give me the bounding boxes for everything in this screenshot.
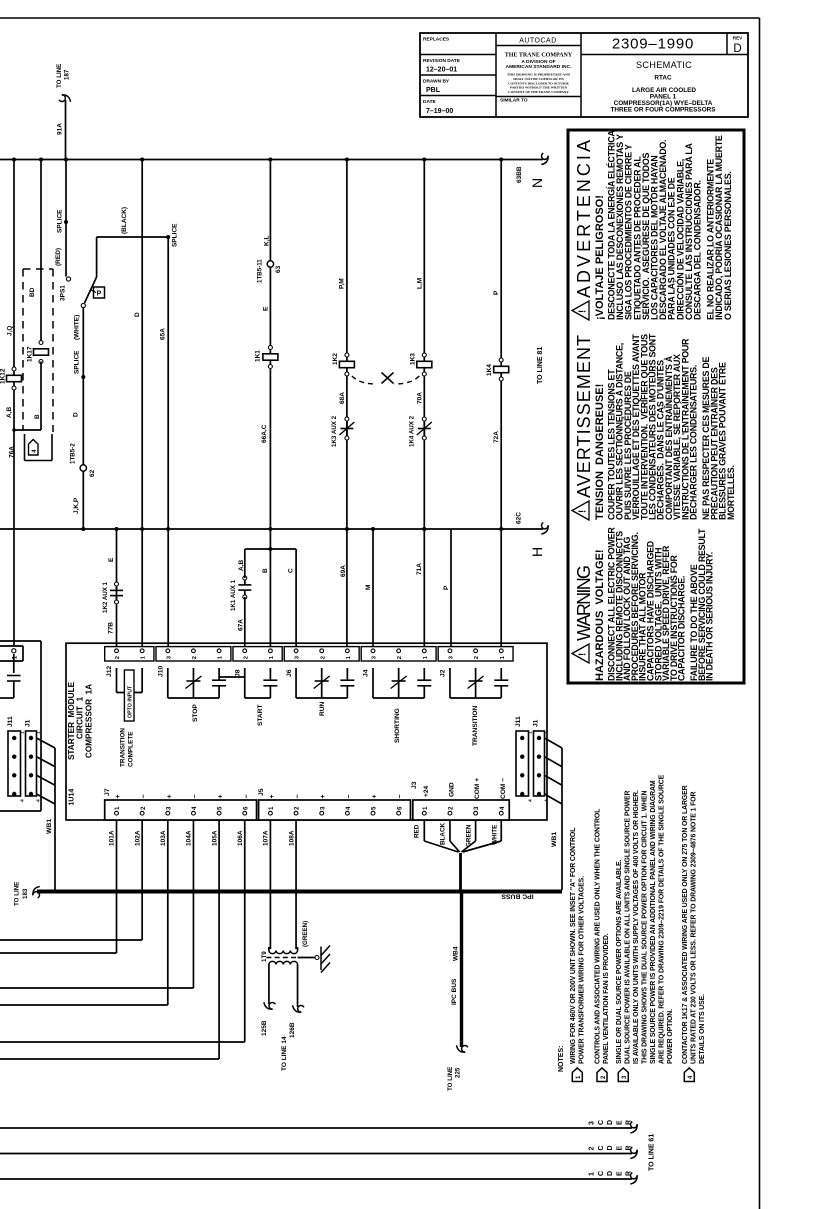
- svg-text:COMPRESSOR 1A: COMPRESSOR 1A: [85, 684, 94, 758]
- svg-text:AVERTISSEMENT: AVERTISSEMENT: [574, 335, 594, 498]
- svg-text:WIRING FOR 460V OR 200V UNIT S: WIRING FOR 460V OR 200V UNIT SHOWN. SEE …: [570, 828, 577, 1064]
- svg-text:1: 1: [20, 731, 26, 734]
- svg-text:5: 5: [217, 806, 224, 810]
- svg-text:CONTACTOR 1K17 & ASSOCIATED WI: CONTACTOR 1K17 & ASSOCIATED WIRING ARE U…: [682, 785, 689, 1064]
- svg-text:REVISION DATE: REVISION DATE: [423, 58, 461, 64]
- svg-text:B: B: [34, 414, 41, 419]
- svg-text:2: 2: [115, 656, 121, 659]
- svg-text:IPC BUS: IPC BUS: [451, 978, 458, 1005]
- svg-text:4: 4: [499, 806, 506, 810]
- svg-text:SHALL NOT BE COPIED OR ITS: SHALL NOT BE COPIED OR ITS: [513, 77, 564, 81]
- svg-text:J4: J4: [363, 669, 370, 677]
- svg-text:183: 183: [22, 888, 29, 899]
- svg-text:1K1 AUX 1: 1K1 AUX 1: [230, 579, 237, 611]
- svg-text:1K2 AUX 1: 1K2 AUX 1: [102, 581, 109, 613]
- svg-text:J11: J11: [7, 716, 14, 727]
- svg-text:A,B: A,B: [6, 407, 13, 419]
- svg-text:1: 1: [576, 1075, 582, 1079]
- svg-text:1TB5-11: 1TB5-11: [257, 259, 264, 283]
- svg-text:C: C: [598, 1171, 605, 1176]
- svg-text:J10: J10: [158, 665, 165, 677]
- svg-text:HAZARDOUS VOLTAGE!: HAZARDOUS VOLTAGE!: [594, 549, 606, 681]
- svg-text:65A: 65A: [160, 328, 167, 340]
- svg-text:PBL: PBL: [426, 87, 441, 94]
- svg-text:(GREEN): (GREEN): [302, 921, 309, 947]
- svg-text:TO LINE 81: TO LINE 81: [537, 347, 544, 384]
- svg-text:J2: J2: [440, 669, 447, 677]
- svg-text:−: −: [243, 794, 250, 798]
- svg-text:J,Q: J,Q: [7, 326, 14, 336]
- svg-text:CAPACITOR DISCHARGE.: CAPACITOR DISCHARGE.: [677, 576, 687, 681]
- svg-text:J,K,P: J,K,P: [73, 497, 80, 514]
- svg-text:WB1: WB1: [46, 819, 53, 834]
- svg-text:RTAC: RTAC: [654, 75, 672, 82]
- svg-text:1: 1: [528, 731, 534, 734]
- svg-text:!: !: [578, 510, 589, 513]
- svg-text:66A,C: 66A,C: [261, 424, 268, 443]
- svg-text:1: 1: [268, 806, 275, 810]
- svg-text:1K4 AUX 2: 1K4 AUX 2: [409, 415, 416, 447]
- svg-text:COM −: COM −: [500, 778, 507, 799]
- svg-text:4: 4: [688, 1075, 694, 1079]
- svg-text:E: E: [108, 557, 115, 562]
- svg-text:2: 2: [294, 806, 301, 810]
- svg-text:J8: J8: [234, 669, 241, 677]
- svg-text:RUN: RUN: [319, 701, 326, 716]
- svg-text:6: 6: [242, 806, 249, 810]
- svg-text:(WHITE): (WHITE): [74, 315, 81, 340]
- svg-text:4: 4: [345, 806, 352, 810]
- svg-text:−: −: [397, 794, 404, 798]
- svg-text:!: !: [578, 310, 589, 313]
- svg-text:R: R: [626, 1120, 633, 1125]
- svg-text:J11: J11: [515, 716, 522, 727]
- svg-text:72A: 72A: [493, 431, 500, 443]
- svg-text:DETAILS ON ITS USE.: DETAILS ON ITS USE.: [699, 994, 706, 1064]
- svg-text:M: M: [365, 585, 372, 590]
- svg-text:K,L: K,L: [264, 236, 271, 247]
- svg-text:P: P: [493, 290, 500, 295]
- svg-text:TRANSITION: TRANSITION: [472, 705, 479, 746]
- svg-text:3: 3: [165, 806, 172, 810]
- svg-text:1U14: 1U14: [69, 789, 76, 806]
- svg-text:TO LINE 61: TO LINE 61: [649, 1134, 656, 1171]
- svg-text:2: 2: [192, 656, 198, 659]
- svg-text:1K4: 1K4: [486, 364, 493, 376]
- svg-text:107A: 107A: [263, 830, 270, 846]
- svg-text:+: +: [269, 794, 276, 798]
- svg-text:POWER TRANSFORMER WIRING FOR O: POWER TRANSFORMER WIRING FOR OTHER VOLTA…: [578, 876, 585, 1064]
- svg-text:3: 3: [589, 1121, 596, 1125]
- svg-text:+24: +24: [423, 785, 430, 797]
- svg-text:P: P: [443, 585, 450, 590]
- svg-text:DESCARGA DEL CONDENSADOR.: DESCARGA DEL CONDENSADOR.: [693, 180, 703, 320]
- svg-text:RED: RED: [414, 824, 421, 838]
- svg-text:NOTES:: NOTES:: [558, 1046, 565, 1072]
- svg-text:2: 2: [320, 656, 326, 659]
- svg-text:C: C: [288, 568, 295, 573]
- svg-text:REV: REV: [733, 36, 743, 41]
- svg-text:106A: 106A: [237, 830, 244, 846]
- svg-text:2309–1990: 2309–1990: [612, 36, 694, 53]
- svg-text:4: 4: [528, 799, 534, 802]
- svg-text:−: −: [346, 794, 353, 798]
- svg-text:MORTELLES.: MORTELLES.: [726, 465, 736, 520]
- svg-text:1K17: 1K17: [27, 346, 34, 362]
- svg-text:COMPLETE: COMPLETE: [128, 731, 135, 767]
- svg-text:68A: 68A: [339, 392, 346, 404]
- svg-text:101A: 101A: [109, 830, 116, 846]
- svg-text:COM +: COM +: [474, 778, 481, 799]
- svg-text:P,M: P,M: [339, 278, 346, 289]
- svg-text:125B: 125B: [261, 1020, 268, 1036]
- svg-text:J3: J3: [411, 781, 418, 789]
- svg-text:CIRCUIT 1: CIRCUIT 1: [76, 696, 85, 739]
- svg-text:1K3: 1K3: [410, 353, 417, 365]
- svg-text:GND: GND: [448, 782, 455, 797]
- svg-text:J1: J1: [25, 719, 32, 727]
- svg-text:TO LINE 14: TO LINE 14: [281, 1036, 288, 1071]
- svg-text:2: 2: [140, 806, 147, 810]
- svg-text:2: 2: [448, 806, 455, 810]
- svg-text:126B: 126B: [289, 1022, 296, 1038]
- svg-text:P: P: [97, 291, 102, 298]
- svg-text:102A: 102A: [134, 830, 141, 846]
- svg-text:OPTO INPUT: OPTO INPUT: [127, 685, 133, 718]
- svg-text:¡VOLTAJE PELIGROSO!: ¡VOLTAJE PELIGROSO!: [594, 195, 606, 320]
- svg-text:WB4: WB4: [453, 946, 460, 961]
- svg-text:DUAL SOURCE POWER IS AVAILABLE: DUAL SOURCE POWER IS AVAILABLE ON ALL UN…: [624, 790, 631, 1064]
- svg-text:SINGLE SOURCE POWER IS PROVIDE: SINGLE SOURCE POWER IS PROVIDED AN ADDIT…: [650, 780, 657, 1064]
- svg-text:104A: 104A: [186, 830, 193, 846]
- svg-text:(BLACK): (BLACK): [121, 207, 128, 234]
- svg-text:5: 5: [371, 806, 378, 810]
- svg-text:BD: BD: [29, 287, 36, 297]
- svg-text:63BB: 63BB: [516, 166, 523, 183]
- svg-text:+: +: [115, 794, 122, 798]
- svg-text:71A: 71A: [416, 563, 423, 575]
- svg-text:E: E: [616, 1146, 623, 1151]
- svg-text:4: 4: [32, 449, 38, 453]
- svg-text:DRAWN BY: DRAWN BY: [423, 79, 450, 85]
- svg-text:O SERIAS LESIONES PERSONALES.: O SERIAS LESIONES PERSONALES.: [723, 171, 733, 320]
- svg-text:ADVERTENCIA: ADVERTENCIA: [574, 140, 594, 298]
- svg-text:J7: J7: [104, 788, 111, 796]
- svg-text:REPLACES: REPLACES: [423, 37, 450, 43]
- svg-text:D: D: [134, 312, 141, 317]
- svg-text:J12: J12: [106, 665, 113, 677]
- svg-text:R: R: [626, 1145, 633, 1150]
- svg-text:C: C: [598, 1120, 605, 1125]
- svg-text:1K12: 1K12: [0, 368, 7, 384]
- svg-text:DÉCHARGER LES CONDENSATEURS.: DÉCHARGER LES CONDENSATEURS.: [689, 365, 699, 520]
- svg-text:UNITS RATED AT 230 VOLTS OR LE: UNITS RATED AT 230 VOLTS OR LESS. REFER …: [690, 791, 697, 1064]
- svg-text:1: 1: [589, 1172, 596, 1176]
- svg-text:1: 1: [114, 806, 121, 810]
- svg-text:D: D: [73, 412, 80, 417]
- svg-text:J6: J6: [286, 669, 293, 677]
- svg-text:WB1: WB1: [551, 832, 558, 847]
- svg-text:IN DEATH OR SERIOUS INJURY.: IN DEATH OR SERIOUS INJURY.: [705, 552, 715, 681]
- svg-text:1K2: 1K2: [332, 353, 339, 365]
- svg-text:3: 3: [473, 806, 480, 810]
- svg-text:−: −: [192, 794, 199, 798]
- svg-text:THREE OR FOUR COMPRESSORS: THREE OR FOUR COMPRESSORS: [610, 107, 716, 114]
- svg-text:PARTIES WITHOUT THE WRITTEN: PARTIES WITHOUT THE WRITTEN: [510, 86, 568, 90]
- svg-text:TO LINE: TO LINE: [14, 882, 21, 906]
- svg-text:−: −: [141, 794, 148, 798]
- svg-text:D: D: [607, 1171, 614, 1176]
- svg-text:3: 3: [319, 806, 326, 810]
- svg-text:WARNING: WARNING: [574, 565, 594, 641]
- svg-text:TO LINE: TO LINE: [56, 64, 63, 88]
- svg-text:−: −: [295, 794, 302, 798]
- svg-text:D: D: [607, 1145, 614, 1150]
- svg-text:1TB5-2: 1TB5-2: [70, 443, 77, 464]
- svg-text:12–20–01: 12–20–01: [426, 67, 457, 74]
- svg-text:1T9: 1T9: [261, 951, 268, 962]
- svg-text:GREEN: GREEN: [466, 824, 473, 847]
- svg-text:R: R: [626, 1171, 633, 1176]
- svg-text:IPC BUSS: IPC BUSS: [501, 893, 534, 900]
- svg-text:POWER OPTION.: POWER OPTION.: [667, 1009, 674, 1064]
- svg-text:ARE REQUIRED. REFER TO DRAWING: ARE REQUIRED. REFER TO DRAWING 2309–2219…: [658, 774, 665, 1064]
- svg-text:B: B: [262, 568, 269, 573]
- svg-text:J1: J1: [533, 719, 540, 727]
- svg-text:TRANSITION: TRANSITION: [120, 728, 127, 767]
- svg-text:CONSENT OF THE TRANE COMPANY: CONSENT OF THE TRANE COMPANY: [508, 90, 569, 94]
- svg-text:69A: 69A: [340, 565, 347, 577]
- svg-text:62: 62: [89, 469, 96, 477]
- svg-text:2: 2: [601, 1075, 607, 1079]
- svg-text:6: 6: [396, 806, 403, 810]
- svg-text:THIS DRAWING SHOWS THE DUAL SO: THIS DRAWING SHOWS THE DUAL SOURCE POWER…: [641, 790, 648, 1064]
- svg-text:103A: 103A: [160, 830, 167, 846]
- svg-text:E: E: [616, 1120, 623, 1125]
- svg-text:E: E: [263, 306, 270, 311]
- svg-text:225: 225: [455, 1067, 462, 1078]
- svg-text:E: E: [616, 1171, 623, 1176]
- svg-text:1K1: 1K1: [255, 350, 262, 362]
- svg-text:STOP: STOP: [192, 704, 199, 722]
- svg-text:187: 187: [64, 69, 71, 80]
- svg-text:+: +: [218, 794, 225, 798]
- svg-text:TENSION DANGEREUSE!: TENSION DANGEREUSE!: [594, 384, 606, 520]
- svg-text:3PS1: 3PS1: [60, 285, 67, 301]
- svg-text:WHITE: WHITE: [492, 825, 499, 845]
- svg-text:4: 4: [191, 806, 198, 810]
- svg-text:!: !: [578, 653, 589, 656]
- svg-text:IS AVAILABLE ONLY ON UNITS WIT: IS AVAILABLE ONLY ON UNITS WITH SUPPLY V…: [633, 790, 640, 1064]
- svg-text:PANEL VENTILATION FAN IS PROVI: PANEL VENTILATION FAN IS PROVIDED.: [603, 933, 610, 1064]
- svg-text:4: 4: [20, 799, 26, 802]
- svg-text:D: D: [733, 43, 741, 55]
- svg-text:4: 4: [544, 799, 550, 802]
- svg-text:SCHEMATIC: SCHEMATIC: [636, 60, 692, 70]
- svg-text:108A: 108A: [288, 830, 295, 846]
- svg-text:105A: 105A: [211, 830, 218, 846]
- svg-text:BLACK: BLACK: [440, 823, 447, 845]
- svg-text:77B: 77B: [108, 622, 115, 634]
- svg-text:THE TRANE COMPANY: THE TRANE COMPANY: [505, 53, 573, 59]
- svg-text:70A: 70A: [417, 392, 424, 404]
- svg-text:H: H: [529, 547, 545, 557]
- svg-text:CONTENTS DISCLOSED TO OUTSIDE: CONTENTS DISCLOSED TO OUTSIDE: [508, 81, 570, 85]
- svg-text:SPLICE: SPLICE: [172, 223, 179, 247]
- svg-text:SPLICE: SPLICE: [57, 209, 64, 233]
- svg-text:C: C: [598, 1145, 605, 1150]
- svg-text:(RED): (RED): [55, 248, 62, 266]
- svg-text:START: START: [257, 705, 264, 727]
- svg-text:63: 63: [275, 265, 282, 273]
- svg-text:+: +: [320, 794, 327, 798]
- svg-text:1K3 AUX 2: 1K3 AUX 2: [331, 415, 338, 447]
- svg-text:N: N: [529, 178, 545, 188]
- svg-text:91A: 91A: [57, 123, 64, 135]
- svg-text:76A: 76A: [9, 446, 16, 458]
- svg-text:DATE: DATE: [423, 99, 437, 105]
- svg-text:SIMILAR TO: SIMILAR TO: [500, 98, 528, 104]
- svg-text:L,M: L,M: [417, 278, 424, 289]
- svg-text:67A: 67A: [238, 619, 245, 631]
- svg-text:SINGLE OR DUAL SOURCE POWER OP: SINGLE OR DUAL SOURCE POWER OPTIONS ARE …: [616, 860, 623, 1064]
- svg-text:2: 2: [243, 656, 249, 659]
- svg-text:THIS DRAWING IS PROPRIETARY AN: THIS DRAWING IS PROPRIETARY AND: [507, 73, 571, 77]
- svg-text:7–19–00: 7–19–00: [426, 108, 453, 115]
- svg-text:2: 2: [589, 1147, 596, 1151]
- svg-text:62C: 62C: [516, 512, 523, 524]
- svg-text:+: +: [372, 794, 379, 798]
- svg-text:1: 1: [11, 655, 18, 659]
- svg-text:2: 2: [474, 656, 480, 659]
- svg-text:J5: J5: [258, 788, 265, 796]
- svg-text:AUTOCAD: AUTOCAD: [519, 38, 557, 45]
- svg-text:CONTROLS AND ASSOCIATED WIRING: CONTROLS AND ASSOCIATED WIRING ARE USED …: [595, 809, 602, 1064]
- svg-text:1: 1: [544, 731, 550, 734]
- svg-text:TO LINE: TO LINE: [447, 1067, 454, 1091]
- svg-text:2: 2: [397, 656, 403, 659]
- svg-text:1: 1: [422, 806, 429, 810]
- svg-text:D: D: [607, 1120, 614, 1125]
- svg-text:3: 3: [622, 1075, 628, 1079]
- svg-text:SPLICE: SPLICE: [74, 350, 81, 374]
- svg-text:SHORTING: SHORTING: [394, 708, 401, 743]
- svg-text:+: +: [166, 794, 173, 798]
- svg-text:AMERICAN STANDARD INC.: AMERICAN STANDARD INC.: [506, 64, 573, 70]
